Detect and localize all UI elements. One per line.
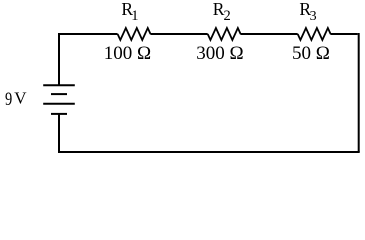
svg-text:9: 9 [5, 88, 12, 109]
svg-text:1: 1 [131, 8, 138, 24]
battery B1 plate short [51, 93, 67, 95]
svg-text:2: 2 [224, 8, 231, 24]
wire right side [358, 33, 360, 152]
wire bottom [59, 151, 360, 153]
wire top segment right of R3 [330, 33, 357, 35]
svg-text:100 Ω: 100 Ω [104, 43, 151, 64]
wire between R1 and R2 [150, 33, 207, 35]
battery B1 plate long top [43, 84, 75, 86]
svg-text:300 Ω: 300 Ω [196, 43, 243, 64]
svg-text:V: V [14, 89, 27, 108]
resistor R1 zigzag [118, 28, 151, 40]
battery B1 plate long [43, 103, 75, 105]
wire between R2 and R3 [240, 33, 297, 35]
svg-text:3: 3 [310, 9, 317, 24]
resistor R2 zigzag [208, 28, 241, 40]
battery B1 plate short bottom [51, 113, 67, 115]
wire left bottom (battery - terminal) [58, 114, 60, 153]
wire left top (battery + terminal) [58, 33, 60, 85]
svg-text:50 Ω: 50 Ω [292, 43, 330, 64]
resistor R3 zigzag [298, 28, 331, 40]
wire top segment left of R1 [59, 33, 118, 35]
